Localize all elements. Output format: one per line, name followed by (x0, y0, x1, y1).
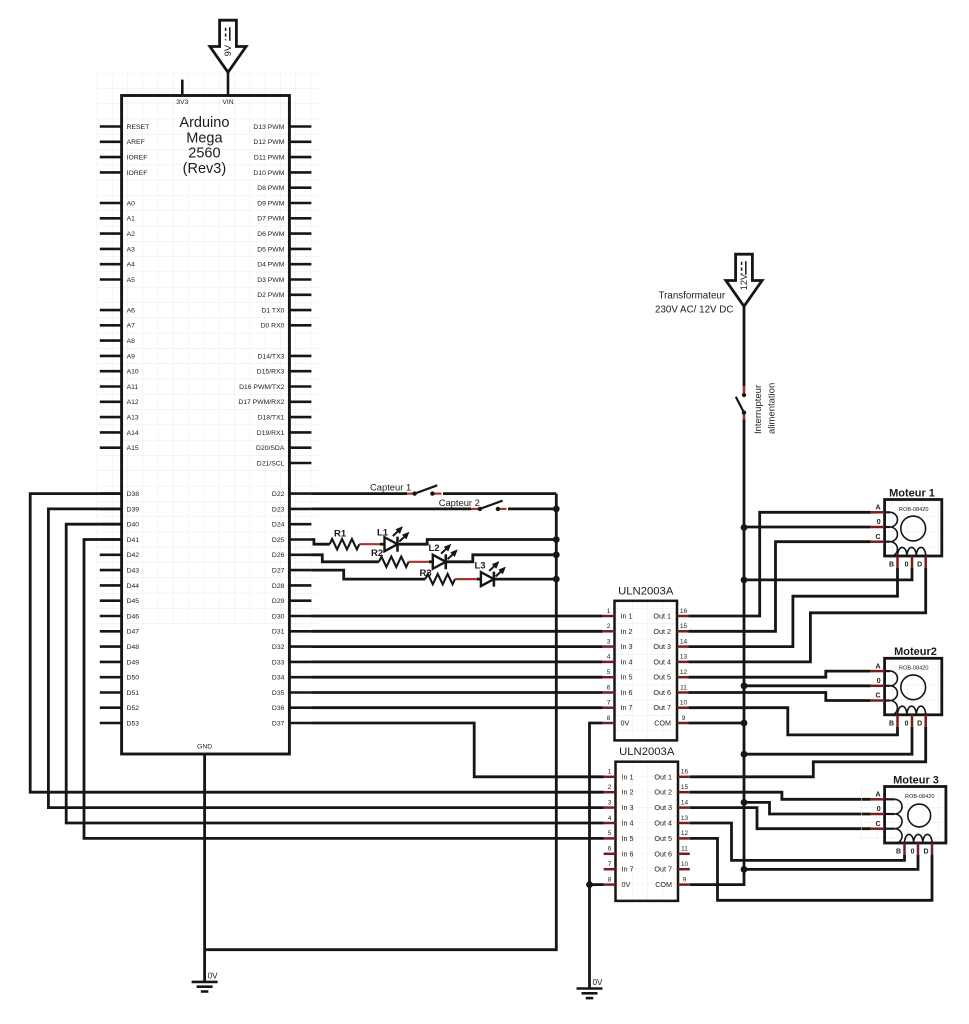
svg-text:0: 0 (911, 849, 915, 856)
svg-text:13: 13 (681, 815, 689, 822)
svg-text:D3 PWM: D3 PWM (257, 277, 285, 284)
svg-text:D28: D28 (272, 583, 285, 590)
svg-text:D33: D33 (272, 659, 285, 666)
svg-text:10: 10 (680, 700, 688, 707)
svg-text:C: C (876, 693, 881, 700)
svg-text:D21/SCL: D21/SCL (257, 460, 285, 467)
svg-text:In 3: In 3 (622, 803, 634, 812)
svg-text:A: A (876, 663, 881, 670)
svg-text:A5: A5 (127, 277, 136, 284)
svg-text:1: 1 (607, 608, 611, 615)
svg-text:D16 PWM/TX2: D16 PWM/TX2 (239, 384, 285, 391)
svg-text:10: 10 (681, 861, 689, 868)
svg-text:D43: D43 (127, 568, 140, 575)
svg-text:B: B (889, 562, 894, 569)
svg-text:D39: D39 (127, 506, 140, 513)
svg-text:D34: D34 (272, 675, 285, 682)
svg-text:In 1: In 1 (622, 772, 634, 781)
svg-text:A3: A3 (127, 246, 136, 253)
svg-text:14: 14 (680, 638, 688, 645)
svg-text:D8 PWM: D8 PWM (257, 185, 285, 192)
svg-text:Out 5: Out 5 (653, 673, 671, 682)
svg-text:0V: 0V (621, 719, 630, 728)
svg-text:A10: A10 (127, 369, 139, 376)
svg-text:Out 6: Out 6 (654, 849, 672, 858)
svg-text:A13: A13 (127, 415, 139, 422)
svg-text:Out 7: Out 7 (654, 865, 672, 874)
svg-text:4: 4 (608, 815, 612, 822)
svg-text:7: 7 (608, 861, 612, 868)
svg-text:2: 2 (608, 784, 612, 791)
svg-text:In 2: In 2 (622, 788, 634, 797)
svg-text:D53: D53 (127, 720, 140, 727)
svg-text:13: 13 (680, 654, 688, 661)
svg-text:11: 11 (681, 846, 688, 853)
svg-text:D18/TX1: D18/TX1 (258, 415, 285, 422)
svg-text:11: 11 (680, 684, 687, 691)
svg-text:GND: GND (197, 744, 212, 751)
svg-text:3V3: 3V3 (176, 99, 188, 106)
svg-text:B: B (889, 720, 894, 727)
svg-text:D48: D48 (127, 644, 140, 651)
svg-text:6: 6 (607, 684, 611, 691)
svg-text:A1: A1 (127, 216, 136, 223)
svg-text:In 7: In 7 (622, 865, 634, 874)
svg-text:In 6: In 6 (622, 849, 634, 858)
svg-text:A11: A11 (127, 384, 139, 391)
svg-text:D27: D27 (272, 568, 285, 575)
svg-text:D17 PWM/RX2: D17 PWM/RX2 (238, 399, 284, 406)
svg-text:5: 5 (607, 669, 611, 676)
svg-text:D10 PWM: D10 PWM (253, 170, 284, 177)
svg-text:In 7: In 7 (621, 703, 633, 712)
svg-text:D7 PWM: D7 PWM (257, 216, 285, 223)
svg-text:16: 16 (681, 769, 689, 776)
svg-text:A8: A8 (127, 338, 136, 345)
svg-text:230V AC/ 12V DC: 230V AC/ 12V DC (655, 305, 733, 316)
svg-text:7: 7 (607, 700, 611, 707)
svg-text:6: 6 (608, 846, 612, 853)
svg-text:Out 1: Out 1 (654, 772, 672, 781)
svg-text:A12: A12 (127, 399, 139, 406)
svg-text:In 5: In 5 (621, 673, 633, 682)
svg-text:D15/RX3: D15/RX3 (257, 369, 285, 376)
svg-text:D36: D36 (272, 705, 285, 712)
svg-text:8: 8 (607, 715, 611, 722)
svg-text:R2: R2 (371, 548, 383, 559)
svg-text:B: B (896, 849, 901, 856)
svg-text:Out 3: Out 3 (653, 642, 671, 651)
svg-text:2560: 2560 (188, 146, 220, 162)
svg-text:8: 8 (608, 876, 612, 883)
svg-text:AREF: AREF (127, 139, 145, 146)
svg-text:D46: D46 (127, 613, 140, 620)
svg-text:Out 4: Out 4 (654, 819, 672, 828)
svg-text:Moteur2: Moteur2 (894, 646, 937, 658)
svg-text:ROB-08420: ROB-08420 (899, 666, 929, 672)
svg-text:0: 0 (877, 678, 881, 685)
svg-text:COM: COM (655, 880, 672, 889)
svg-text:A14: A14 (127, 430, 139, 437)
svg-text:D23: D23 (272, 506, 285, 513)
svg-text:Out 1: Out 1 (653, 612, 671, 621)
svg-text:12: 12 (680, 669, 688, 676)
svg-text:D22: D22 (272, 491, 285, 498)
svg-text:9: 9 (683, 876, 687, 883)
svg-text:D51: D51 (127, 690, 140, 697)
svg-text:Out 2: Out 2 (653, 627, 671, 636)
svg-text:In 1: In 1 (621, 612, 633, 621)
svg-text:Transformateur: Transformateur (659, 291, 726, 302)
svg-text:Out 7: Out 7 (653, 703, 671, 712)
svg-text:D13 PWM: D13 PWM (253, 124, 284, 131)
svg-text:Mega: Mega (186, 130, 223, 146)
svg-text:alimentation: alimentation (767, 383, 778, 434)
svg-text:D35: D35 (272, 690, 285, 697)
svg-text:RESET: RESET (127, 124, 150, 131)
svg-text:D29: D29 (272, 598, 285, 605)
svg-text:L2: L2 (429, 543, 440, 554)
svg-text:9V: 9V (223, 44, 233, 56)
svg-text:15: 15 (681, 784, 689, 791)
svg-text:12: 12 (681, 830, 689, 837)
svg-text:4: 4 (607, 654, 611, 661)
svg-text:D52: D52 (127, 705, 140, 712)
svg-text:In 6: In 6 (621, 688, 633, 697)
svg-text:D24: D24 (272, 522, 285, 529)
svg-text:0V: 0V (593, 978, 604, 987)
svg-text:D5 PWM: D5 PWM (257, 246, 285, 253)
svg-text:A7: A7 (127, 323, 136, 330)
svg-text:A: A (876, 792, 881, 799)
svg-text:D19/RX1: D19/RX1 (257, 430, 285, 437)
svg-text:D9 PWM: D9 PWM (257, 200, 285, 207)
svg-text:Moteur 1: Moteur 1 (889, 487, 935, 499)
svg-text:D37: D37 (272, 720, 285, 727)
svg-text:9: 9 (682, 715, 686, 722)
svg-text:D14/TX3: D14/TX3 (258, 353, 285, 360)
svg-text:16: 16 (680, 608, 688, 615)
svg-text:ULN2003A: ULN2003A (618, 586, 674, 598)
svg-text:A2: A2 (127, 231, 136, 238)
svg-text:D30: D30 (272, 613, 285, 620)
svg-text:Out 6: Out 6 (653, 688, 671, 697)
svg-text:D45: D45 (127, 598, 140, 605)
svg-text:5: 5 (608, 830, 612, 837)
svg-text:VIN: VIN (222, 99, 233, 106)
svg-text:D11 PWM: D11 PWM (254, 155, 285, 162)
svg-text:A9: A9 (127, 353, 136, 360)
svg-text:D40: D40 (127, 522, 140, 529)
svg-text:R3: R3 (420, 568, 432, 579)
svg-text:D: D (917, 562, 922, 569)
svg-text:0V: 0V (622, 880, 631, 889)
svg-text:0: 0 (905, 720, 909, 727)
svg-text:0V: 0V (208, 972, 219, 981)
svg-text:D: D (917, 720, 922, 727)
svg-text:D20/SDA: D20/SDA (256, 445, 285, 452)
svg-text:Arduino: Arduino (179, 115, 229, 131)
svg-text:ROB-08420: ROB-08420 (899, 507, 929, 513)
svg-text:R1: R1 (334, 528, 347, 539)
svg-text:Out 2: Out 2 (654, 788, 672, 797)
svg-text:In 3: In 3 (621, 642, 633, 651)
svg-text:COM: COM (654, 719, 671, 728)
svg-text:IOREF: IOREF (127, 155, 148, 162)
svg-text:3: 3 (608, 799, 612, 806)
svg-text:0: 0 (877, 806, 881, 813)
svg-text:Capteur 1: Capteur 1 (370, 482, 411, 493)
svg-text:A4: A4 (127, 262, 136, 269)
svg-text:(Rev3): (Rev3) (183, 161, 227, 177)
svg-text:D50: D50 (127, 675, 140, 682)
svg-text:ROB-08420: ROB-08420 (905, 794, 935, 800)
svg-text:D42: D42 (127, 552, 140, 559)
svg-text:In 5: In 5 (622, 834, 634, 843)
svg-text:D4 PWM: D4 PWM (257, 262, 285, 269)
svg-text:Moteur 3: Moteur 3 (893, 774, 939, 786)
svg-text:D: D (923, 849, 928, 856)
svg-text:Out 4: Out 4 (653, 657, 671, 666)
svg-text:A15: A15 (127, 445, 139, 452)
svg-text:C: C (876, 821, 881, 828)
svg-text:In 4: In 4 (621, 657, 633, 666)
svg-text:D1 TX0: D1 TX0 (261, 308, 284, 315)
svg-text:D6 PWM: D6 PWM (257, 231, 285, 238)
svg-text:Out 3: Out 3 (654, 803, 672, 812)
svg-text:In 4: In 4 (622, 819, 634, 828)
svg-text:2: 2 (607, 623, 611, 630)
svg-text:C: C (876, 534, 881, 541)
svg-text:Capteur 2: Capteur 2 (439, 497, 480, 508)
svg-text:12V: 12V (739, 273, 749, 290)
svg-text:L1: L1 (377, 528, 389, 539)
svg-text:D32: D32 (272, 644, 285, 651)
svg-text:D44: D44 (127, 583, 140, 590)
svg-text:0: 0 (905, 562, 909, 569)
svg-text:Out 5: Out 5 (654, 834, 672, 843)
svg-text:D38: D38 (127, 491, 140, 498)
svg-text:D0 RX0: D0 RX0 (261, 323, 285, 330)
svg-text:A0: A0 (127, 200, 136, 207)
svg-text:D49: D49 (127, 659, 140, 666)
svg-text:IOREF: IOREF (127, 170, 148, 177)
svg-text:D26: D26 (272, 552, 285, 559)
svg-text:In 2: In 2 (621, 627, 633, 636)
svg-text:D31: D31 (272, 629, 285, 636)
svg-text:0: 0 (877, 519, 881, 526)
svg-text:D12 PWM: D12 PWM (253, 139, 284, 146)
svg-text:D47: D47 (127, 629, 140, 636)
svg-text:L3: L3 (475, 560, 486, 571)
svg-text:Interrupteur: Interrupteur (753, 385, 764, 434)
svg-text:1: 1 (608, 769, 612, 776)
svg-text:15: 15 (680, 623, 688, 630)
svg-text:ULN2003A: ULN2003A (619, 746, 675, 758)
svg-text:14: 14 (681, 799, 689, 806)
svg-text:D2 PWM: D2 PWM (257, 292, 285, 299)
svg-text:3: 3 (607, 638, 611, 645)
svg-text:A6: A6 (127, 308, 136, 315)
svg-text:A: A (876, 505, 881, 512)
svg-text:D41: D41 (127, 537, 140, 544)
svg-text:D25: D25 (272, 537, 285, 544)
